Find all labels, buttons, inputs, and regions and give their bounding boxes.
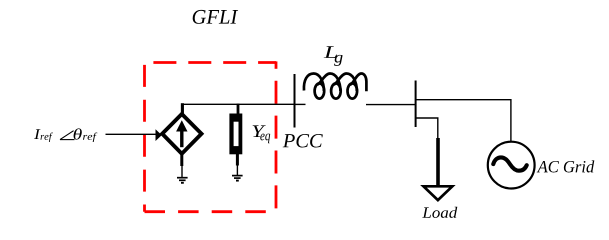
- node PCC (bus bar): [294, 74, 296, 128]
- arrowhead into current source: [156, 129, 162, 141]
- wire: diamond bottom stub (thick + thin): [180, 153, 183, 178]
- ground under current source: [177, 178, 188, 183]
- wire: diamond top stub: [181, 103, 184, 115]
- admittance Yeq (rectangle): [229, 114, 242, 155]
- wire: PCC to inductor lead: [295, 103, 306, 105]
- inductor Lg (coil): [304, 74, 366, 99]
- wire: inductor to right bus: [366, 104, 416, 106]
- label Load: [422, 207, 457, 218]
- wire: Yeq top stub: [237, 104, 240, 114]
- label AC Grid: [537, 160, 595, 172]
- wire: right bus to load branch (elbow, thin then thick): [416, 118, 438, 186]
- red dashed GFLI boundary box: [145, 61, 277, 211]
- label Lg: [324, 46, 337, 58]
- wire: top horizontal bus wire to PCC: [181, 103, 294, 105]
- node: right bus bar: [415, 81, 417, 128]
- current source I1 (diamond with up arrow): [162, 114, 201, 154]
- wire: Yeq bottom stub (thick + thin): [236, 153, 239, 175]
- label Yeq: [253, 125, 266, 137]
- ground under Yeq: [232, 176, 243, 181]
- label GFLI (title): [193, 10, 238, 24]
- label Iref angle theta-ref: [34, 128, 97, 142]
- load arrow (hollow triangle): [424, 186, 453, 200]
- wire: Iref input lead: [106, 133, 158, 135]
- AC source (circle with sine): [488, 142, 535, 189]
- label PCC: [283, 134, 323, 147]
- wire: right bus to AC grid (elbow): [416, 100, 511, 142]
